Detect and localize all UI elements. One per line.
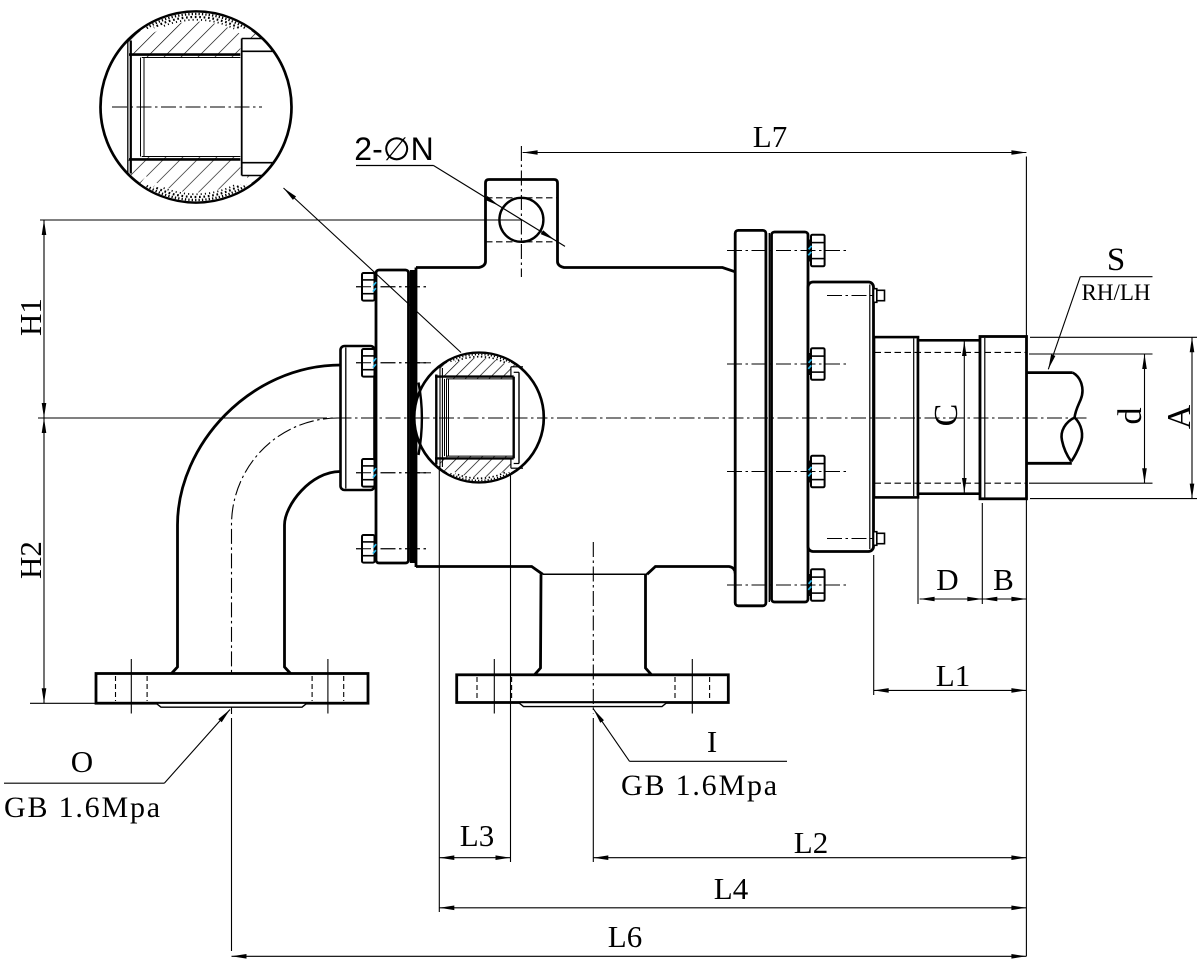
- svg-text:L2: L2: [794, 825, 828, 860]
- bottom pipe centerline: [592, 542, 594, 714]
- dimension L2: [593, 825, 1026, 860]
- svg-text:H2: H2: [13, 541, 48, 579]
- hex bolt at y=471.5: [727, 471, 846, 473]
- svg-text:RH/LH: RH/LH: [1082, 280, 1151, 305]
- elbow pipe centerline: [232, 418, 339, 714]
- right flange hex bolts: [727, 235, 846, 601]
- thread section bubble on main body: [414, 348, 544, 487]
- dimension L6: [232, 919, 1027, 959]
- dimension A: [1161, 337, 1198, 498]
- body cover plate (tall left flange plate): [376, 270, 409, 563]
- hex bolt at y=362.8: [356, 362, 427, 364]
- rotor flange plate 1: [735, 230, 766, 605]
- main horizontal centerline: [312, 417, 1090, 419]
- lug vertical centerline: [520, 146, 522, 277]
- housing cover screws: [827, 289, 885, 546]
- svg-text:O: O: [71, 744, 93, 779]
- dimension H2: [13, 418, 48, 703]
- hex bolt at y=472.8: [356, 472, 427, 474]
- label O (GB 1.6Mpa) for left flange: [4, 710, 230, 825]
- svg-text:GB 1.6Mpa: GB 1.6Mpa: [621, 769, 779, 802]
- elbow inlet flange O (bottom-left): [96, 674, 368, 708]
- leader from thread location to detail view: [284, 188, 462, 353]
- svg-text:A: A: [1161, 404, 1198, 429]
- bottom outlet pipe neck: [535, 574, 652, 675]
- svg-text:I: I: [707, 724, 717, 759]
- dimension H1: [13, 220, 48, 418]
- centerline of detail view: [112, 106, 262, 108]
- dimension L1: [874, 658, 1027, 693]
- dimension D: [920, 562, 983, 601]
- dimension L3: [439, 818, 510, 860]
- svg-text:S: S: [1107, 242, 1125, 278]
- svg-text:d: d: [1112, 408, 1149, 425]
- dimension C: [928, 341, 967, 493]
- section B (nut): [980, 337, 1027, 499]
- lug hole (2-N drilled hole): [486, 198, 557, 242]
- main body barrel with top lug and bottom neck outline: [416, 180, 735, 575]
- label S over RH/LH with leader to shaft thread: [1048, 242, 1152, 369]
- hex bolt at y=250.5: [727, 250, 846, 252]
- threaded shaft stub S with break: [1027, 373, 1083, 464]
- hidden thread bore lines: [875, 352, 1027, 483]
- detail view: enlarged thread section (top-left bubble): [101, 10, 292, 204]
- svg-text:GB 1.6Mpa: GB 1.6Mpa: [4, 791, 162, 824]
- svg-text:B: B: [993, 562, 1014, 597]
- dimension B: [982, 562, 1026, 601]
- bearing housing: [808, 282, 874, 552]
- svg-text:L6: L6: [608, 919, 642, 954]
- svg-text:L4: L4: [714, 871, 749, 906]
- gasket (thick black joint): [410, 270, 416, 563]
- cyan fit marks at bolt joints: [373, 246, 812, 590]
- dimension d: [1112, 354, 1149, 483]
- section C (nipple): [918, 340, 980, 493]
- label 2-phi-N with leader to lug holes: [354, 131, 565, 246]
- svg-text:H1: H1: [13, 298, 48, 336]
- svg-text:2-∅N: 2-∅N: [354, 131, 433, 167]
- svg-text:C: C: [928, 404, 965, 427]
- hex bolt at y=286.8: [356, 286, 427, 288]
- joint gasket line between plates: [768, 233, 770, 602]
- bolt centerlines over heads: [356, 251, 846, 586]
- svg-text:L3: L3: [460, 818, 494, 853]
- hex bolt at y=548.8: [356, 548, 427, 550]
- dimension L7: [523, 119, 1027, 155]
- svg-text:L1: L1: [936, 658, 970, 693]
- elbow pipe (left inlet bend): [172, 365, 342, 674]
- elbow mounting flange (at body left face): [341, 346, 375, 490]
- dimension L4: [439, 871, 1026, 910]
- hex bolt at y=585: [727, 584, 846, 586]
- svg-text:L7: L7: [753, 119, 787, 154]
- svg-text:D: D: [936, 562, 958, 597]
- label I (GB 1.6Mpa) for bottom flange: [594, 709, 787, 802]
- bottom outlet flange I: [457, 675, 729, 707]
- hex bolt at y=364: [727, 363, 846, 365]
- bolt holes of bottom flange: [477, 659, 710, 714]
- stepped section 1 (seal sleeve): [874, 337, 918, 497]
- rotor flange plate 2: [772, 232, 809, 602]
- left flange hex bolts: [356, 273, 427, 563]
- bolt holes of bottom-left flange: [116, 659, 344, 714]
